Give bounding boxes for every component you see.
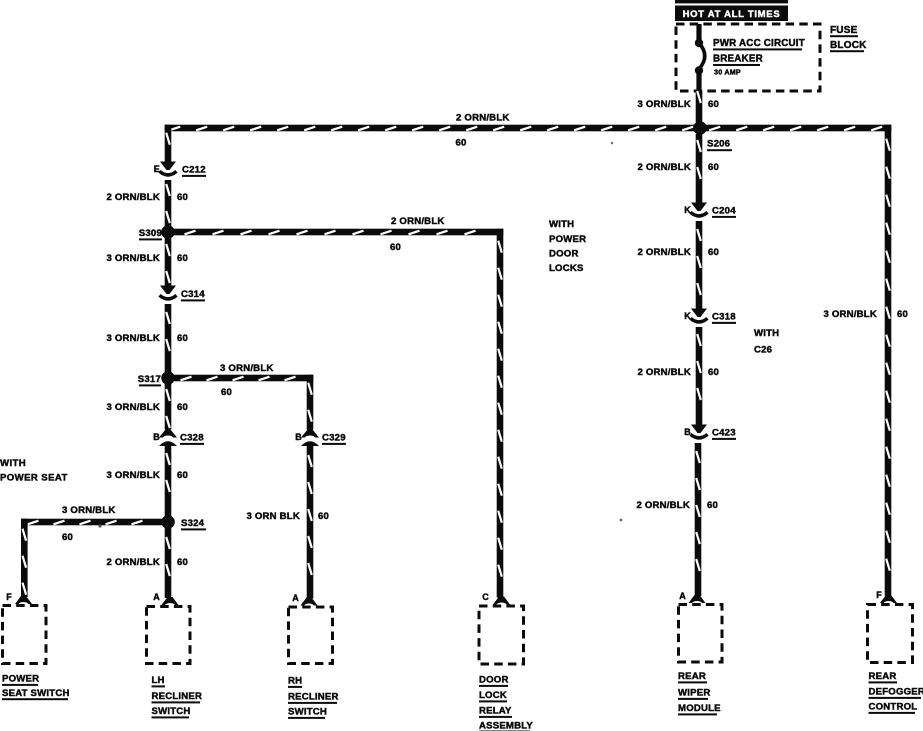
- label C329: [322, 433, 346, 445]
- svg-text:MODULE: MODULE: [678, 703, 721, 714]
- wire C329 to RH recliner switch: [307, 446, 314, 599]
- wire top bus to rear defogger control: [885, 125, 892, 596]
- svg-text:S309: S309: [139, 228, 162, 239]
- svg-text:C204: C204: [712, 206, 736, 217]
- label S206: [707, 139, 732, 152]
- wire C328 to S324: [165, 446, 172, 516]
- svg-text:FUSE: FUSE: [830, 25, 858, 36]
- label 2 ORN/BLK 60 (top bus): [456, 113, 510, 149]
- label 3 ORN/BLK 60 (C328-S324): [106, 470, 188, 481]
- pin A LH recliner switch: [153, 592, 160, 602]
- svg-text:BLOCK: BLOCK: [830, 40, 867, 51]
- svg-text:A: A: [153, 592, 160, 602]
- power feed bar: [675, 0, 788, 3]
- svg-text:2 ORN/BLK: 2 ORN/BLK: [391, 216, 445, 227]
- label 3 ORN/BLK 60 (C314-S317): [106, 333, 188, 344]
- svg-text:SWITCH: SWITCH: [288, 707, 327, 718]
- svg-text:C329: C329: [322, 433, 346, 444]
- label 2 ORN/BLK 60 (S206-C204): [637, 162, 719, 173]
- svg-text:REAR: REAR: [678, 671, 706, 682]
- svg-text:B: B: [684, 427, 691, 437]
- svg-text:60: 60: [221, 387, 232, 398]
- label 3 ORN/BLK 60 (defogger feed): [823, 309, 908, 320]
- wire C314 to S317: [165, 304, 172, 372]
- svg-text:A: A: [292, 593, 299, 603]
- svg-text:WITH: WITH: [0, 458, 26, 469]
- connector C329 symbol: [301, 430, 319, 447]
- svg-text:REAR: REAR: [869, 671, 897, 682]
- wire C204 to C318: [696, 221, 703, 309]
- label 2 ORN/BLK 60 (C318-C423): [637, 367, 719, 378]
- label 3 ORN/BLK 60 (power seat feed): [62, 505, 116, 543]
- svg-text:SWITCH: SWITCH: [152, 706, 191, 717]
- svg-text:60: 60: [708, 162, 719, 173]
- svg-text:F: F: [876, 590, 882, 600]
- svg-text:POWER: POWER: [549, 234, 586, 245]
- label C328: [180, 433, 204, 445]
- note WITH POWER DOOR LOCKS: [549, 219, 586, 274]
- box power seat switch: [3, 606, 47, 664]
- svg-text:3 ORN/BLK: 3 ORN/BLK: [823, 309, 877, 320]
- svg-text:60: 60: [177, 253, 188, 264]
- svg-text:C314: C314: [181, 289, 205, 300]
- svg-text:3 ORN/BLK: 3 ORN/BLK: [637, 99, 691, 110]
- svg-text:60: 60: [177, 402, 188, 413]
- svg-text:C: C: [482, 592, 489, 602]
- label C212: [182, 165, 206, 177]
- connector foot C door lock relay assembly: [493, 597, 510, 609]
- pin B at C328: [153, 432, 160, 442]
- svg-text:RECLINER: RECLINER: [288, 692, 339, 703]
- svg-text:60: 60: [177, 470, 188, 481]
- svg-text:E: E: [154, 164, 160, 174]
- label POWER SEAT SWITCH: [2, 674, 70, 701]
- connector C212 symbol: [160, 162, 177, 175]
- pin A RH recliner switch: [292, 593, 299, 603]
- svg-text:S206: S206: [707, 139, 730, 150]
- svg-text:A: A: [679, 591, 686, 601]
- wire S317 branch to C329: [174, 375, 313, 430]
- svg-text:60: 60: [177, 333, 188, 344]
- connector C318 symbol: [691, 309, 708, 322]
- connector foot A LH recliner switch: [162, 597, 179, 609]
- label 2 ORN/BLK 60 (C423-wiper): [636, 500, 718, 511]
- scan speck: [98, 142, 622, 528]
- label C314: [181, 289, 205, 301]
- pin B at C329: [295, 432, 302, 442]
- label FUSE BLOCK: [830, 25, 867, 52]
- label C204: [712, 206, 736, 218]
- svg-text:DEFOGGER: DEFOGGER: [869, 687, 923, 698]
- label C423: [712, 428, 736, 440]
- svg-text:2 ORN/BLK: 2 ORN/BLK: [106, 192, 160, 203]
- svg-text:2 ORN/BLK: 2 ORN/BLK: [106, 557, 160, 568]
- label 3 ORN/BLK 60 (S309-C314): [106, 253, 188, 264]
- label PWR ACC CIRCUIT BREAKER 30 AMP: [713, 38, 805, 77]
- label 2 ORN/BLK 60 (S324-LH): [106, 557, 188, 568]
- circuit breaker PWR ACC 30A symbol: [695, 24, 705, 91]
- svg-text:LOCKS: LOCKS: [549, 263, 584, 274]
- svg-text:3 ORN/BLK: 3 ORN/BLK: [106, 470, 160, 481]
- label RH RECLINER SWITCH: [288, 676, 339, 719]
- svg-text:3 ORN/BLK: 3 ORN/BLK: [220, 363, 274, 374]
- svg-text:60: 60: [390, 242, 401, 253]
- pin F power seat switch: [6, 592, 12, 602]
- svg-text:C26: C26: [754, 345, 772, 356]
- pin A rear wiper module: [679, 591, 686, 601]
- svg-text:B: B: [153, 432, 160, 442]
- splice S324: [161, 515, 175, 529]
- svg-text:WITH: WITH: [754, 328, 779, 339]
- label S317: [138, 374, 161, 386]
- connector foot F rear defogger control: [880, 595, 897, 607]
- svg-text:60: 60: [177, 192, 188, 203]
- svg-text:S317: S317: [138, 374, 161, 385]
- pin K at C318: [684, 311, 691, 321]
- splice S206: [693, 121, 707, 135]
- svg-text:3 ORN/BLK: 3 ORN/BLK: [62, 505, 116, 516]
- label S324: [181, 518, 206, 530]
- svg-text:BREAKER: BREAKER: [713, 54, 763, 65]
- svg-text:60: 60: [177, 557, 188, 568]
- label 2 ORN/BLK 60 (C212-S309): [106, 192, 188, 203]
- svg-text:3 ORN/BLK: 3 ORN/BLK: [106, 402, 160, 413]
- svg-text:S324: S324: [181, 518, 205, 529]
- svg-text:RH: RH: [288, 676, 302, 687]
- svg-text:60: 60: [708, 247, 719, 258]
- svg-text:RELAY: RELAY: [479, 706, 512, 717]
- connector foot A RH recliner switch: [301, 598, 318, 610]
- svg-text:LH: LH: [152, 675, 165, 686]
- pin B at C423: [684, 427, 691, 437]
- svg-text:POWER SEAT: POWER SEAT: [0, 473, 68, 484]
- svg-text:B: B: [295, 432, 302, 442]
- svg-text:DOOR: DOOR: [549, 249, 579, 260]
- box rear defogger control: [868, 605, 913, 663]
- svg-text:60: 60: [708, 367, 719, 378]
- box rear wiper module: [679, 605, 723, 663]
- svg-text:RECLINER: RECLINER: [152, 691, 203, 702]
- label DOOR LOCK RELAY ASSEMBLY: [479, 675, 533, 731]
- label C318: [712, 312, 736, 324]
- svg-text:3 ORN/BLK: 3 ORN/BLK: [106, 333, 160, 344]
- connector foot F power seat switch: [15, 596, 32, 608]
- svg-text:C328: C328: [180, 433, 204, 444]
- svg-text:60: 60: [708, 99, 719, 110]
- svg-text:60: 60: [456, 138, 467, 149]
- wire C423 to rear wiper module: [695, 443, 702, 596]
- svg-text:2 ORN/BLK: 2 ORN/BLK: [637, 247, 691, 258]
- splice S309: [161, 225, 175, 239]
- pin C door lock relay assembly: [482, 592, 489, 602]
- wire S206 to C204: [696, 134, 703, 203]
- svg-text:F: F: [6, 592, 12, 602]
- label 3 ORN/BLK 60 (S317-C328): [106, 402, 188, 413]
- wire S309 branch to door lock: [174, 229, 503, 598]
- svg-text:DOOR: DOOR: [479, 675, 509, 686]
- svg-text:CONTROL: CONTROL: [869, 702, 918, 713]
- svg-text:C423: C423: [712, 428, 736, 439]
- svg-text:60: 60: [318, 511, 329, 522]
- svg-text:WIPER: WIPER: [678, 688, 710, 699]
- wire breaker to S206: [696, 91, 703, 125]
- svg-text:3 ORN/BLK: 3 ORN/BLK: [106, 253, 160, 264]
- wire top bus: [165, 125, 892, 132]
- box RH recliner switch: [289, 607, 333, 664]
- label S309: [139, 228, 162, 240]
- splice S317: [161, 371, 175, 385]
- banner HOT AT ALL TIMES: [675, 6, 788, 22]
- svg-text:HOT AT ALL TIMES: HOT AT ALL TIMES: [683, 9, 781, 20]
- wire S324 branch to power seat switch: [21, 519, 162, 597]
- connector C328 symbol: [159, 430, 177, 447]
- connector C204 symbol: [691, 203, 708, 216]
- wire S309 to C314: [165, 238, 172, 286]
- svg-text:60: 60: [62, 532, 73, 543]
- svg-text:PWR ACC CIRCUIT: PWR ACC CIRCUIT: [713, 38, 805, 49]
- svg-text:3 ORN BLK: 3 ORN BLK: [246, 511, 300, 522]
- svg-text:2 ORN/BLK: 2 ORN/BLK: [636, 500, 690, 511]
- label 2 ORN/BLK 60 (C204-C318): [637, 247, 719, 258]
- wire S324 to LH recliner switch: [165, 528, 172, 598]
- svg-text:2 ORN/BLK: 2 ORN/BLK: [637, 162, 691, 173]
- box LH recliner switch: [147, 607, 191, 664]
- svg-text:K: K: [684, 205, 691, 215]
- svg-text:C212: C212: [182, 165, 206, 176]
- wire S317 to C328: [165, 384, 172, 430]
- svg-text:60: 60: [707, 500, 718, 511]
- pin E at C212: [154, 164, 160, 174]
- connector C314 symbol: [160, 286, 177, 299]
- label 3 ORN/BLK 60 (S317 branch): [220, 363, 274, 398]
- label REAR DEFOGGER CONTROL: [869, 671, 923, 714]
- svg-text:2 ORN/BLK: 2 ORN/BLK: [637, 367, 691, 378]
- fuse block box: [676, 24, 820, 91]
- svg-text:C318: C318: [712, 312, 736, 323]
- svg-text:K: K: [684, 311, 691, 321]
- note WITH C26: [754, 328, 779, 356]
- svg-text:LOCK: LOCK: [479, 690, 507, 701]
- svg-text:SEAT SWITCH: SEAT SWITCH: [2, 688, 70, 699]
- svg-text:60: 60: [897, 309, 908, 320]
- label LH RECLINER SWITCH: [152, 675, 203, 718]
- wire C212 to S309: [165, 180, 172, 226]
- wire top bus to C212: [165, 125, 172, 162]
- svg-text:WITH: WITH: [549, 219, 574, 230]
- label 3 ORN/BLK 60 (breaker feed): [637, 99, 719, 110]
- note WITH POWER SEAT: [0, 458, 68, 484]
- connector foot A rear wiper module: [689, 595, 706, 607]
- box door lock relay assembly: [479, 606, 524, 664]
- pin F rear defogger control: [876, 590, 882, 600]
- label 3 ORN BLK 60 (C329-RH): [246, 511, 329, 522]
- svg-text:2 ORN/BLK: 2 ORN/BLK: [456, 113, 510, 124]
- svg-text:30 AMP: 30 AMP: [714, 68, 741, 77]
- svg-text:ASSEMBLY: ASSEMBLY: [479, 721, 533, 731]
- label REAR WIPER MODULE: [678, 671, 721, 715]
- label 2 ORN/BLK 60 (door lock feed): [390, 216, 445, 253]
- svg-text:POWER: POWER: [2, 674, 39, 685]
- connector C423 symbol: [691, 425, 708, 438]
- pin K at C204: [684, 205, 691, 215]
- wire C318 to C423: [696, 327, 703, 425]
